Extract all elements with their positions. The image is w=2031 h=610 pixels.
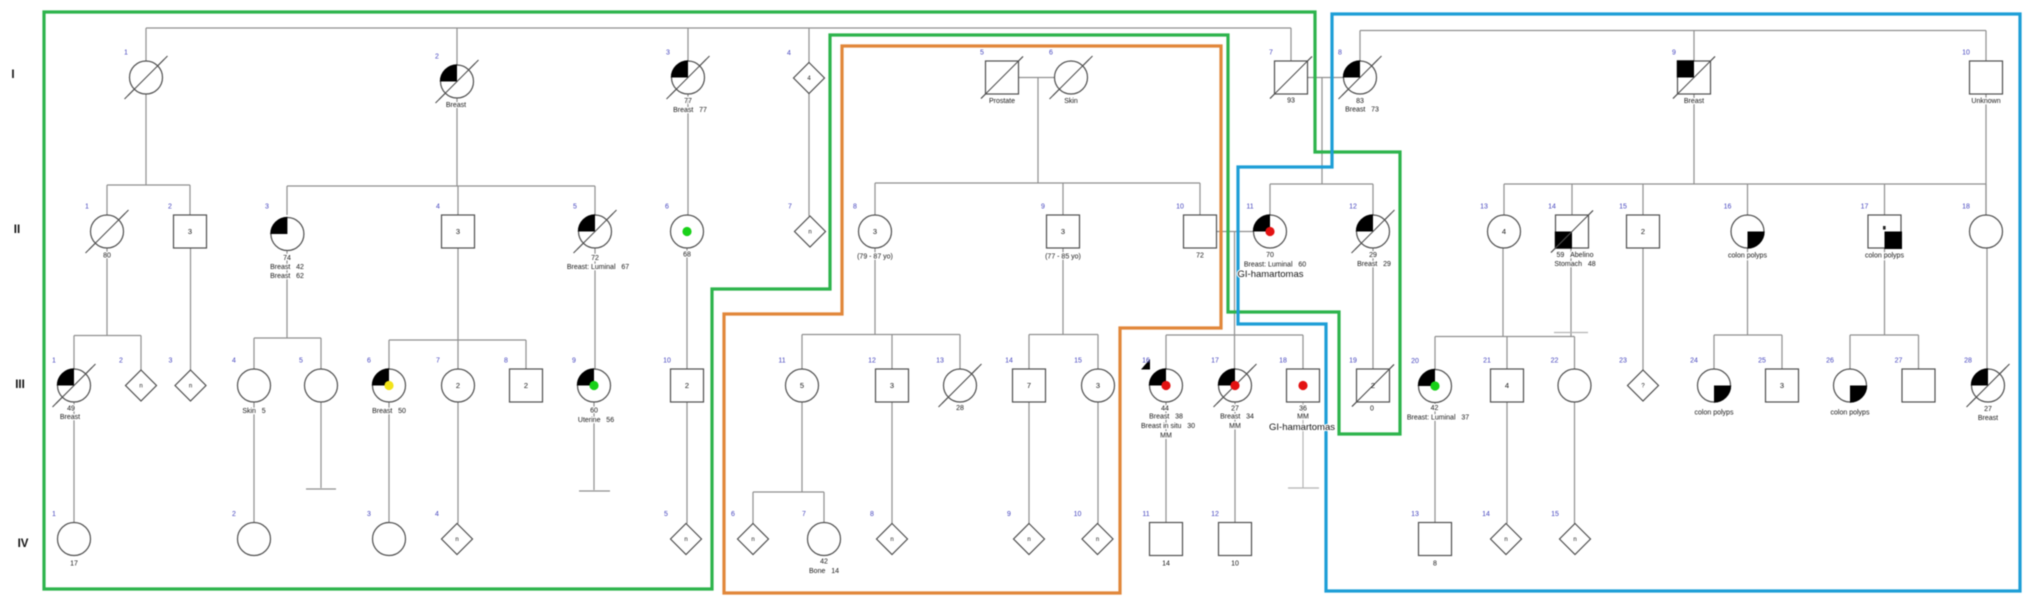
svg-text:42: 42: [820, 559, 828, 566]
svg-text:6: 6: [731, 511, 735, 518]
svg-text:18: 18: [1279, 358, 1287, 365]
svg-text:2: 2: [119, 358, 123, 365]
svg-text:21: 21: [1483, 358, 1491, 365]
svg-text:4: 4: [436, 204, 440, 211]
svg-text:4: 4: [787, 50, 791, 57]
svg-text:12: 12: [868, 358, 876, 365]
svg-text:7: 7: [1027, 381, 1031, 390]
svg-text:colon polyps: colon polyps: [1865, 253, 1904, 260]
svg-text:MM: MM: [1160, 433, 1172, 440]
svg-text:2: 2: [1641, 227, 1645, 236]
svg-text:6: 6: [1049, 50, 1053, 57]
svg-text:16: 16: [1142, 358, 1150, 365]
svg-text:Breast: Luminal 60: Breast: Luminal 60: [1244, 262, 1306, 269]
svg-text:49: 49: [67, 406, 75, 413]
svg-text:Breast 34: Breast 34: [1220, 414, 1254, 421]
svg-text:59 Abelino: 59 Abelino: [1557, 252, 1594, 259]
svg-text:3: 3: [1061, 227, 1065, 236]
svg-text:29: 29: [1369, 252, 1377, 259]
svg-text:68: 68: [683, 252, 691, 259]
svg-text:28: 28: [1964, 358, 1972, 365]
svg-text:Breast: Luminal 37: Breast: Luminal 37: [1407, 415, 1469, 422]
svg-text:2: 2: [456, 381, 460, 390]
svg-text:19: 19: [1349, 358, 1357, 365]
svg-text:Skin 5: Skin 5: [242, 408, 265, 415]
svg-text:10: 10: [663, 358, 671, 365]
svg-text:7: 7: [802, 511, 806, 518]
svg-text:5: 5: [573, 204, 577, 211]
svg-text:Breast 77: Breast 77: [673, 107, 707, 114]
svg-text:2: 2: [524, 381, 528, 390]
svg-text:8: 8: [870, 511, 874, 518]
svg-text:3: 3: [873, 227, 877, 236]
svg-text:1: 1: [52, 511, 56, 518]
svg-text:n: n: [1027, 537, 1030, 543]
svg-text:n: n: [1096, 537, 1099, 543]
svg-text:16: 16: [1724, 204, 1732, 211]
svg-text:10: 10: [1231, 561, 1239, 568]
svg-text:2: 2: [168, 204, 172, 211]
svg-text:3: 3: [890, 381, 894, 390]
svg-text:72: 72: [1196, 253, 1204, 260]
svg-text:5: 5: [800, 381, 804, 390]
svg-text:27: 27: [1231, 406, 1239, 413]
svg-text:15: 15: [1074, 358, 1082, 365]
svg-text:colon polyps: colon polyps: [1831, 410, 1870, 417]
svg-text:Breast: Luminal 67: Breast: Luminal 67: [567, 264, 629, 271]
svg-text:5: 5: [980, 50, 984, 57]
svg-text:10: 10: [1176, 204, 1184, 211]
svg-text:13: 13: [936, 358, 944, 365]
svg-text:24: 24: [1690, 358, 1698, 365]
svg-text:14: 14: [1162, 561, 1170, 568]
svg-text:GI-hamartomas: GI-hamartomas: [1269, 422, 1335, 433]
svg-text:80: 80: [103, 253, 111, 260]
svg-text:14: 14: [1005, 358, 1013, 365]
svg-text:10: 10: [1074, 511, 1082, 518]
svg-text:Unknown: Unknown: [1971, 98, 2000, 105]
svg-text:15: 15: [1551, 511, 1559, 518]
svg-text:77: 77: [684, 98, 692, 105]
svg-text:5: 5: [664, 511, 668, 518]
svg-text:(79 - 87 yo): (79 - 87 yo): [857, 254, 893, 261]
svg-text:7: 7: [788, 204, 792, 211]
svg-text:23: 23: [1619, 358, 1627, 365]
svg-text:44: 44: [1161, 406, 1169, 413]
svg-text:20: 20: [1411, 358, 1419, 365]
svg-text:4: 4: [232, 358, 236, 365]
svg-text:3: 3: [456, 227, 460, 236]
svg-text:n: n: [808, 230, 811, 236]
svg-text:III: III: [15, 379, 25, 391]
svg-text:17: 17: [70, 561, 78, 568]
svg-text:n: n: [751, 537, 754, 543]
svg-text:colon polyps: colon polyps: [1728, 253, 1767, 260]
svg-text:11: 11: [1246, 204, 1253, 211]
svg-text:13: 13: [1411, 511, 1419, 518]
svg-text:9: 9: [1007, 511, 1011, 518]
svg-text:Breast in situ 30: Breast in situ 30: [1141, 423, 1195, 430]
svg-text:n: n: [890, 537, 893, 543]
svg-text:7: 7: [436, 358, 440, 365]
svg-text:MM: MM: [1229, 423, 1241, 430]
svg-text:Bone 14: Bone 14: [809, 568, 839, 575]
svg-text:9: 9: [1041, 204, 1045, 211]
svg-text:n: n: [455, 537, 458, 543]
svg-text:n: n: [189, 384, 192, 390]
svg-text:12: 12: [1211, 511, 1219, 518]
svg-text:72: 72: [591, 255, 599, 262]
svg-text:7: 7: [1269, 50, 1273, 57]
svg-text:25: 25: [1758, 358, 1766, 365]
svg-text:(77 - 85 yo): (77 - 85 yo): [1045, 254, 1081, 261]
svg-text:Breast 42: Breast 42: [270, 264, 304, 271]
svg-text:5: 5: [299, 358, 303, 365]
svg-text:Uterine 56: Uterine 56: [578, 417, 614, 424]
svg-text:3: 3: [169, 358, 173, 365]
svg-text:3: 3: [1096, 381, 1100, 390]
svg-text:17: 17: [1211, 358, 1219, 365]
svg-text:Breast: Breast: [1978, 415, 1998, 422]
svg-text:2: 2: [685, 381, 689, 390]
svg-text:Breast: Breast: [60, 414, 80, 421]
svg-text:Prostate: Prostate: [989, 98, 1015, 105]
svg-text:74: 74: [283, 255, 291, 262]
svg-text:n: n: [684, 537, 687, 543]
svg-text:n: n: [1504, 537, 1507, 543]
svg-text:Breast: Breast: [446, 102, 466, 109]
svg-text:8: 8: [853, 204, 857, 211]
svg-text:12: 12: [1349, 204, 1357, 211]
svg-text:2: 2: [1371, 381, 1375, 390]
svg-text:28: 28: [956, 405, 964, 412]
svg-text:Breast 38: Breast 38: [1149, 414, 1183, 421]
svg-text:1: 1: [52, 358, 56, 365]
svg-text:9: 9: [572, 358, 576, 365]
svg-text:14: 14: [1482, 511, 1490, 518]
svg-text:8: 8: [1338, 50, 1342, 57]
svg-text:3: 3: [666, 50, 670, 57]
svg-text:3: 3: [265, 204, 269, 211]
svg-text:Skin: Skin: [1064, 98, 1078, 105]
svg-text:Stomach 48: Stomach 48: [1554, 261, 1595, 268]
svg-text:8: 8: [504, 358, 508, 365]
svg-text:MM: MM: [1297, 414, 1309, 421]
svg-text:2: 2: [232, 511, 236, 518]
svg-text:70: 70: [1266, 252, 1274, 259]
svg-text:17: 17: [1861, 204, 1869, 211]
svg-text:8: 8: [1433, 561, 1437, 568]
svg-text:60: 60: [590, 408, 598, 415]
svg-text:Breast 29: Breast 29: [1357, 261, 1391, 268]
svg-text:Breast 73: Breast 73: [1345, 107, 1379, 114]
svg-text:10: 10: [1962, 50, 1970, 57]
svg-text:4: 4: [1502, 227, 1506, 236]
svg-text:Breast: Breast: [1684, 98, 1704, 105]
svg-text:11: 11: [1142, 511, 1149, 518]
svg-text:4: 4: [1505, 381, 1509, 390]
svg-text:4: 4: [435, 511, 439, 518]
svg-text:3: 3: [188, 227, 192, 236]
svg-text:14: 14: [1548, 204, 1556, 211]
svg-text:83: 83: [1356, 98, 1364, 105]
svg-text:Breast 62: Breast 62: [270, 273, 304, 280]
svg-text:1: 1: [85, 204, 89, 211]
svg-text:n: n: [139, 384, 142, 390]
svg-text:36: 36: [1299, 406, 1307, 413]
svg-text:colon polyps: colon polyps: [1695, 410, 1734, 417]
svg-text:0: 0: [1370, 406, 1374, 413]
svg-text:6: 6: [665, 204, 669, 211]
svg-text:42: 42: [1431, 405, 1439, 412]
svg-text:2: 2: [435, 54, 439, 61]
svg-text:93: 93: [1287, 98, 1295, 105]
svg-text:II: II: [14, 224, 20, 236]
svg-text:3: 3: [367, 511, 371, 518]
svg-text:1: 1: [124, 50, 128, 57]
svg-text:6: 6: [367, 358, 371, 365]
svg-text:3: 3: [1780, 381, 1784, 390]
svg-text:15: 15: [1619, 204, 1627, 211]
svg-text:I: I: [11, 69, 14, 81]
svg-text:27: 27: [1895, 358, 1903, 365]
svg-text:IV: IV: [18, 538, 29, 550]
svg-text:11: 11: [778, 358, 785, 365]
svg-text:9: 9: [1672, 50, 1676, 57]
svg-text:27: 27: [1984, 406, 1992, 413]
svg-text:22: 22: [1551, 358, 1559, 365]
svg-text:13: 13: [1480, 204, 1488, 211]
svg-text:Breast 50: Breast 50: [372, 408, 406, 415]
svg-text:26: 26: [1826, 358, 1834, 365]
svg-text:n: n: [1573, 537, 1576, 543]
svg-text:GI-hamartomas: GI-hamartomas: [1238, 269, 1304, 280]
svg-text:18: 18: [1962, 204, 1970, 211]
